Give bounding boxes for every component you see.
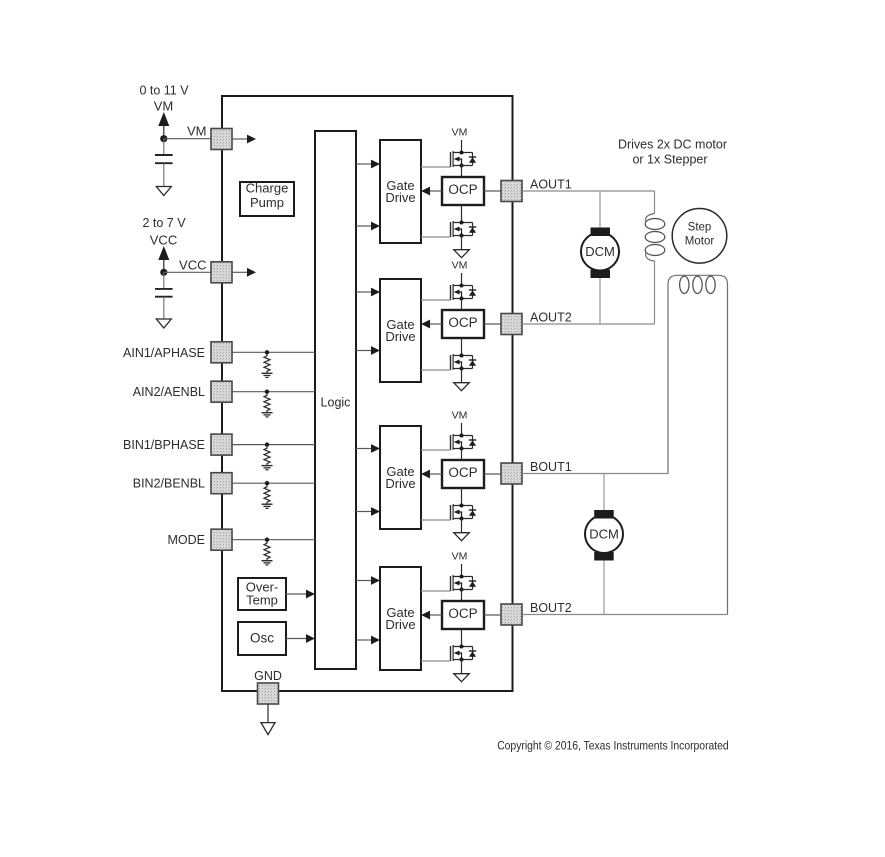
svg-text:VM: VM — [452, 127, 468, 139]
svg-text:VCC: VCC — [179, 258, 206, 273]
svg-text:VM: VM — [154, 99, 174, 114]
svg-text:AIN1/APHASE: AIN1/APHASE — [123, 346, 205, 360]
svg-text:Drive: Drive — [385, 617, 415, 632]
svg-text:VM: VM — [452, 260, 468, 272]
svg-text:Drive: Drive — [385, 190, 415, 205]
svg-text:BOUT1: BOUT1 — [530, 460, 572, 474]
svg-text:Charge: Charge — [246, 180, 289, 195]
svg-text:BIN1/BPHASE: BIN1/BPHASE — [123, 438, 205, 452]
svg-text:Drives 2x DC motor: Drives 2x DC motor — [618, 138, 727, 152]
svg-text:Osc: Osc — [250, 631, 274, 646]
svg-text:Step: Step — [688, 222, 712, 234]
svg-text:BIN2/BENBL: BIN2/BENBL — [133, 477, 205, 491]
svg-text:Drive: Drive — [385, 329, 415, 344]
svg-text:VM: VM — [187, 124, 207, 139]
svg-text:VCC: VCC — [150, 233, 177, 248]
svg-text:DCM: DCM — [589, 527, 619, 542]
svg-text:AOUT2: AOUT2 — [530, 311, 572, 325]
svg-text:OCP: OCP — [448, 315, 477, 330]
svg-text:OCP: OCP — [448, 465, 477, 480]
svg-text:AIN2/AENBL: AIN2/AENBL — [133, 385, 205, 399]
svg-text:OCP: OCP — [448, 606, 477, 621]
svg-text:Pump: Pump — [250, 195, 284, 210]
svg-text:2 to 7 V: 2 to 7 V — [142, 216, 186, 230]
svg-text:DCM: DCM — [585, 244, 615, 259]
svg-text:GND: GND — [254, 669, 282, 683]
svg-text:Logic: Logic — [321, 396, 351, 410]
svg-text:MODE: MODE — [168, 533, 206, 547]
svg-text:AOUT1: AOUT1 — [530, 178, 572, 192]
svg-text:Drive: Drive — [385, 476, 415, 491]
svg-text:or 1x Stepper: or 1x Stepper — [632, 153, 707, 167]
svg-text:Temp: Temp — [246, 593, 278, 608]
svg-text:BOUT2: BOUT2 — [530, 601, 572, 615]
svg-text:VM: VM — [452, 551, 468, 563]
svg-text:Copyright © 2016, Texas Instru: Copyright © 2016, Texas Instruments Inco… — [497, 738, 729, 752]
svg-text:0 to 11 V: 0 to 11 V — [139, 84, 189, 98]
svg-text:OCP: OCP — [448, 182, 477, 197]
svg-text:VM: VM — [452, 410, 468, 422]
svg-text:Motor: Motor — [685, 236, 715, 248]
